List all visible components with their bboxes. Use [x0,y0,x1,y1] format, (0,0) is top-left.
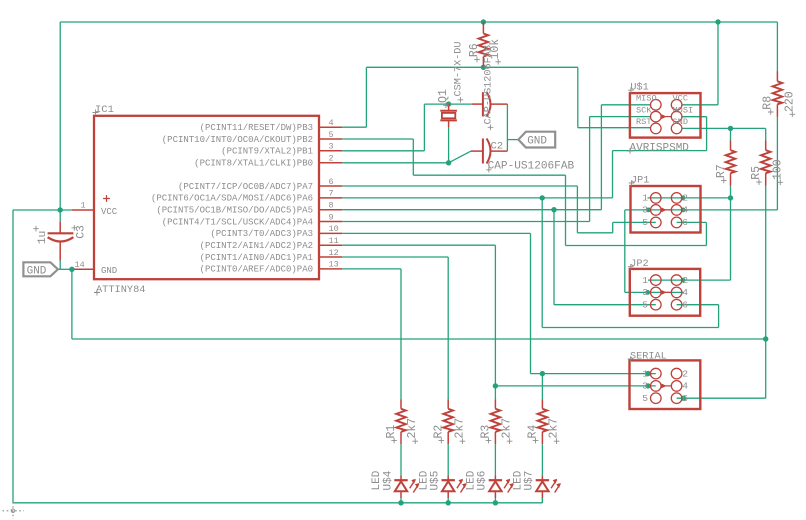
svg-text:(PCINT11/RESET/DW)PB3: (PCINT11/RESET/DW)PB3 [200,123,313,133]
svg-text:GND: GND [527,136,547,148]
svg-text:(PCINT4/T1/SCL/USCK/ADC4)PA4: (PCINT4/T1/SCL/USCK/ADC4)PA4 [162,217,313,227]
svg-text:VCC: VCC [673,94,688,104]
svg-text:JP2: JP2 [630,259,648,270]
svg-text:6: 6 [682,300,688,311]
svg-text:CAP-US1206FAB: CAP-US1206FAB [488,160,575,172]
svg-text:U$1: U$1 [630,82,648,94]
svg-text:9: 9 [329,212,334,222]
svg-text:1: 1 [81,201,86,211]
svg-text:AVRISPSMD: AVRISPSMD [630,142,690,154]
svg-text:4: 4 [682,287,688,298]
svg-text:4: 4 [682,381,688,392]
svg-text:(PCINT7/ICP/OC0B/ADC7)PA7: (PCINT7/ICP/OC0B/ADC7)PA7 [178,182,313,192]
svg-text:SCK: SCK [636,105,652,115]
svg-text:(PCINT2/AIN1/ADC2)PA2: (PCINT2/AIN1/ADC2)PA2 [200,241,313,251]
svg-text:5: 5 [642,300,648,311]
svg-text:C2: C2 [491,140,504,152]
svg-text:U$4: U$4 [382,470,394,490]
svg-text:2: 2 [682,368,688,379]
svg-text:(PCINT9/XTAL2)PB1: (PCINT9/XTAL2)PB1 [221,147,313,157]
svg-text:GND: GND [673,117,688,127]
svg-text:VCC: VCC [101,207,118,217]
svg-text:(PCINT3/T0/ADC3)PA3: (PCINT3/T0/ADC3)PA3 [210,229,313,239]
svg-text:(PCINT0/AREF/ADC0)PA0: (PCINT0/AREF/ADC0)PA0 [200,265,313,275]
svg-text:MOSI: MOSI [673,105,694,115]
svg-text:MISO: MISO [636,94,657,104]
svg-text:SERIAL: SERIAL [630,351,667,362]
svg-text:RST: RST [636,117,651,127]
svg-text:3: 3 [642,381,648,392]
svg-text:(PCINT6/OC1A/SDA/MOSI/ADC6)PA6: (PCINT6/OC1A/SDA/MOSI/ADC6)PA6 [151,194,313,204]
svg-text:2: 2 [329,154,334,164]
svg-text:2k7: 2k7 [548,418,561,439]
svg-text:3: 3 [642,205,648,216]
svg-text:5: 5 [642,217,648,228]
svg-text:GND: GND [101,266,117,276]
svg-text:2k7: 2k7 [501,418,514,439]
svg-text:2k7: 2k7 [453,418,466,439]
svg-text:5: 5 [329,130,334,140]
svg-text:ATTINY84: ATTINY84 [96,284,145,296]
svg-text:JP1: JP1 [631,175,649,186]
svg-text:U$7: U$7 [524,471,536,491]
svg-text:U$5: U$5 [430,471,442,491]
svg-text:1u: 1u [37,231,49,245]
svg-text:1: 1 [642,368,648,379]
svg-text:IC1: IC1 [95,104,114,116]
svg-text:3: 3 [642,287,648,298]
svg-text:220: 220 [783,91,796,112]
svg-text:2: 2 [682,193,688,204]
svg-text:GND: GND [27,265,47,277]
svg-text:R7: R7 [715,164,728,178]
svg-text:3: 3 [329,142,334,152]
svg-text:U$6: U$6 [477,471,489,491]
svg-text:7: 7 [329,189,334,199]
svg-text:6: 6 [682,393,688,404]
svg-text:1: 1 [642,275,648,286]
svg-text:2k7: 2k7 [406,418,419,439]
svg-text:(PCINT5/OC1B/MISO/DO/ADC5)PA5: (PCINT5/OC1B/MISO/DO/ADC5)PA5 [156,206,313,216]
svg-text:14: 14 [75,260,85,270]
svg-text:R2: R2 [432,425,445,439]
svg-text:CAP-US1206FAB: CAP-US1206FAB [484,45,495,124]
svg-text:Q1: Q1 [437,89,450,103]
svg-text:8: 8 [329,201,334,211]
svg-text:5: 5 [642,393,648,404]
svg-text:6: 6 [682,217,688,228]
svg-text:R8: R8 [762,96,775,110]
svg-text:4: 4 [682,205,688,216]
svg-text:11: 11 [329,236,339,246]
svg-text:R4: R4 [527,425,540,439]
svg-text:C3: C3 [75,225,87,239]
svg-text:4: 4 [329,118,334,128]
svg-text:1: 1 [642,193,648,204]
svg-text:(PCINT8/XTAL1/CLKI)PB0: (PCINT8/XTAL1/CLKI)PB0 [194,159,313,169]
svg-text:CSM-7X-DU: CSM-7X-DU [454,41,465,96]
svg-text:R3: R3 [480,425,493,439]
svg-text:10: 10 [329,224,339,234]
svg-text:R5: R5 [750,166,763,180]
svg-text:12: 12 [329,248,339,258]
svg-text:(PCINT1/AIN0/ADC1)PA1: (PCINT1/AIN0/ADC1)PA1 [200,253,313,263]
svg-text:6: 6 [329,177,334,187]
svg-text:2: 2 [682,275,688,286]
svg-text:(PCINT10/INT0/OC0A/CKOUT)PB2: (PCINT10/INT0/OC0A/CKOUT)PB2 [162,135,313,145]
svg-text:R1: R1 [385,425,398,439]
svg-text:100: 100 [771,159,784,180]
svg-text:13: 13 [329,260,339,270]
svg-text:R6: R6 [468,43,481,57]
